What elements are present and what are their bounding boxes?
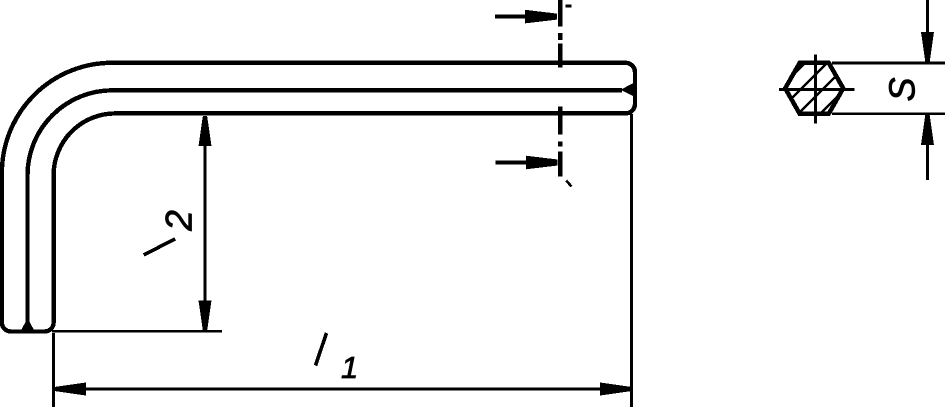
- flare at right end of middle line: [621, 83, 634, 97]
- section viewing arrow bottom: [496, 161, 530, 165]
- l1 right arrowhead: [600, 383, 631, 396]
- S dimension line upper part: [926, 0, 929, 33]
- l2 bottom extension line: [52, 330, 222, 333]
- hexagon horizontal centerline: [779, 88, 854, 91]
- svg-text:1: 1: [341, 350, 358, 385]
- S top extension line: [832, 62, 945, 65]
- S dimension line lower part: [926, 144, 929, 180]
- l2 arrowhead down: [199, 301, 212, 331]
- section viewing arrow top: [495, 15, 528, 19]
- label l of l2 (rotated italic stroke): [144, 239, 176, 255]
- flare at bottom end of middle line: [21, 318, 35, 332]
- svg-text:S: S: [882, 77, 923, 101]
- hatching of hexagon section: [748, 60, 874, 120]
- section cut line (dash-dot): [558, 0, 562, 177]
- l2 dimension line: [204, 117, 207, 330]
- S bottom extension line: [832, 112, 945, 115]
- hexagon cross-section: [785, 63, 843, 114]
- svg-text:2: 2: [158, 210, 199, 232]
- l1 right extension line: [630, 114, 633, 407]
- small tick bottom right of section line: [566, 181, 571, 187]
- hex key middle edge line: [28, 90, 623, 323]
- l1 left extension line: [52, 333, 55, 407]
- S upper arrowhead (down): [921, 32, 934, 63]
- hex key outer contour: [2, 63, 635, 332]
- label l of l1 (italic stroke): [316, 333, 327, 366]
- l2 arrowhead up: [199, 116, 212, 146]
- l1 dimension line: [56, 388, 630, 391]
- S lower arrowhead (up): [921, 114, 934, 145]
- hexagon vertical centerline: [814, 54, 817, 123]
- small tick top right of section line: [566, 5, 572, 8]
- l1 left arrowhead: [55, 383, 86, 396]
